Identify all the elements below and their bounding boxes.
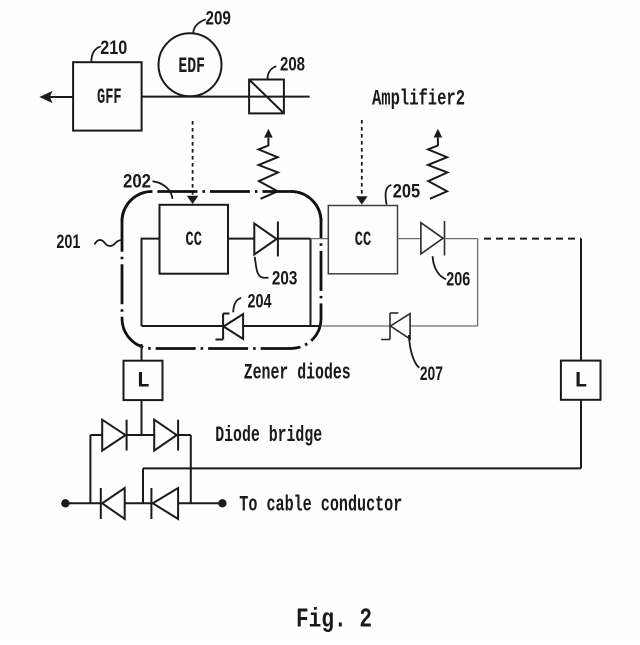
dashed pump arrow into CC2 [361, 120, 363, 196]
svg-text:203: 203 [272, 268, 298, 290]
isolator 208 [249, 80, 284, 114]
terminal dot left [61, 499, 69, 507]
leader 204 [233, 298, 241, 313]
wire: drop to bridge bottom [142, 468, 144, 503]
wire: to CC2 input [311, 238, 329, 240]
wire: bridge bottom rail [65, 502, 100, 504]
arrow: output to left [49, 96, 73, 98]
wire: inner lower horizontal [142, 325, 223, 327]
erbium-doped fiber coil EDF 209 [159, 33, 222, 96]
wire: CC1 left feedback loop [142, 239, 160, 326]
dashed wire to cable [484, 238, 581, 240]
zigzag radiation symbol (right) with arrow [434, 129, 443, 138]
bridge diode top-left [102, 420, 125, 451]
wire: right loop vertical [477, 239, 479, 326]
svg-text:Diode bridge: Diode bridge [215, 423, 322, 448]
svg-text:210: 210 [100, 37, 127, 59]
svg-text:201: 201 [56, 231, 80, 253]
bridge right vertical [190, 435, 192, 503]
svg-text:Amplifier2: Amplifier2 [372, 87, 465, 112]
svg-text:202: 202 [123, 171, 151, 193]
leader 201 wavy [95, 240, 122, 246]
current control box CC2 (205) [328, 206, 397, 274]
wire: CC2 to diode 206 [398, 238, 421, 240]
gain-flattening filter GFF 210 [73, 62, 142, 130]
wire: left L to bridge [141, 399, 143, 435]
svg-text:205: 205 [393, 181, 421, 203]
zener diode 204 [224, 314, 244, 339]
wire: diode 206 output [445, 238, 478, 240]
bridge diode bottom-left [102, 488, 125, 519]
zener diode 207 [391, 314, 411, 339]
svg-text:204: 204 [248, 291, 272, 313]
zigzag radiation symbol (left) [259, 146, 278, 199]
dash-dot enclosure 201/202 [122, 192, 321, 349]
inductor L (right) [561, 361, 601, 400]
inductor L (left) [124, 361, 163, 400]
svg-text:Zener diodes: Zener diodes [244, 360, 351, 386]
leader 203 [255, 257, 269, 278]
svg-text:209: 209 [206, 8, 232, 30]
svg-text:L: L [137, 369, 150, 394]
bridge diode bottom-right [153, 488, 178, 519]
leader 206 [433, 256, 446, 279]
leader 207 [409, 335, 419, 368]
wire: below right L [580, 400, 582, 469]
current control box CC1 (202) [160, 205, 229, 274]
leader 202 [153, 181, 173, 199]
leader 208 [268, 66, 277, 79]
wire: fiber line [142, 96, 310, 98]
svg-text:Fig. 2: Fig. 2 [296, 605, 372, 635]
svg-text:207: 207 [420, 363, 443, 385]
leader 209 [193, 19, 206, 33]
bridge diode top-right [154, 420, 177, 451]
rounded box corner arcs solid [122, 192, 152, 222]
wire: bridge top rail [90, 434, 102, 436]
wire: CC1 to diode 203 [228, 238, 254, 240]
svg-text:206: 206 [446, 269, 470, 291]
dashed pump arrow into CC1 [192, 121, 194, 195]
wire: right vertical to L [580, 239, 582, 361]
terminal dot right [218, 499, 226, 507]
wire: return horizontal [143, 467, 581, 469]
svg-text:CC: CC [355, 229, 372, 252]
wire: loop lower horizontal [410, 325, 478, 327]
bridge left vertical [89, 435, 91, 503]
svg-text:L: L [574, 369, 587, 394]
svg-text:GFF: GFF [97, 85, 122, 110]
leader 210 [91, 46, 101, 62]
svg-text:CC: CC [186, 229, 203, 252]
leader 205 [386, 185, 392, 205]
diode 206 [421, 223, 443, 254]
wire: diode 203 output [278, 238, 311, 240]
svg-text:208: 208 [280, 54, 305, 76]
svg-text:EDF: EDF [178, 53, 205, 79]
diode 203 [254, 224, 276, 255]
svg-text:To cable conductor: To cable conductor [239, 493, 402, 518]
wire: enclosure to left L [141, 344, 143, 361]
wire: inner right vertical [310, 239, 312, 326]
arrow: emission up (left) [264, 129, 273, 138]
